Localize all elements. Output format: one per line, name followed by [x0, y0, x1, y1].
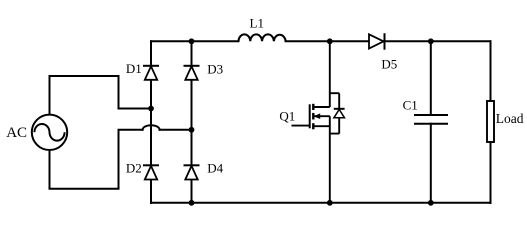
svg-text:D4: D4 — [207, 160, 223, 175]
junction dot top rail / C1 — [428, 38, 434, 44]
junction dot bottom rail / right leg — [189, 200, 195, 206]
wire capacitor branch lower — [430, 124, 432, 203]
MOSFET Q1 — [292, 41, 345, 203]
svg-text:L1: L1 — [250, 15, 264, 30]
diode D5 — [369, 33, 385, 50]
wire AC bottom lead — [50, 130, 143, 189]
wire hop to right bridge leg — [160, 129, 192, 131]
svg-text:D3: D3 — [207, 62, 223, 77]
wire AC top lead to bridge — [50, 76, 152, 115]
svg-text:Q1: Q1 — [279, 109, 295, 124]
wire top rail right segment — [286, 40, 491, 42]
junction dot top rail / Q1 drain — [327, 38, 333, 44]
wire hop over left leg — [143, 125, 160, 130]
diode D4 — [184, 165, 200, 179]
junction dot left leg / AC — [148, 106, 154, 112]
svg-text:AC: AC — [6, 125, 27, 141]
junction dot bottom rail / C1 — [428, 200, 434, 206]
wire top rail left segment — [151, 40, 239, 42]
wire right edge branch (load branch) — [490, 41, 492, 203]
svg-text:Load: Load — [496, 111, 524, 126]
junction dot top rail / right leg — [189, 38, 195, 44]
svg-text:D1: D1 — [126, 61, 142, 76]
load resistor — [487, 101, 494, 142]
wire capacitor branch upper — [430, 41, 432, 115]
diode D2 — [143, 165, 159, 179]
junction dot bottom rail / Q1 source — [327, 200, 333, 206]
AC source — [32, 115, 67, 150]
diode D3 — [184, 66, 200, 80]
diode D1 — [143, 66, 159, 80]
inductor L1 — [239, 34, 286, 41]
junction dot right leg / AC return — [189, 127, 195, 133]
svg-text:C1: C1 — [403, 97, 418, 112]
wire right bridge leg — [191, 41, 193, 203]
wire left bridge leg — [150, 41, 152, 203]
wire bottom rail — [151, 202, 491, 204]
svg-text:D2: D2 — [126, 160, 142, 175]
svg-text:D5: D5 — [381, 57, 397, 72]
capacitor C1 — [414, 115, 448, 124]
